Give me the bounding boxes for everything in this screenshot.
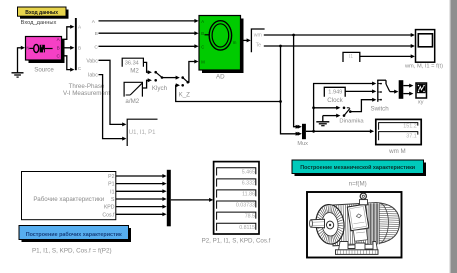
svg-text:K_Z: K_Z <box>179 92 191 99</box>
svg-text:Вход_данных: Вход_данных <box>21 20 57 26</box>
svg-text:wm M: wm M <box>388 148 406 155</box>
svg-text:1.949: 1.949 <box>328 89 342 95</box>
svg-text:C: C <box>201 44 204 49</box>
svg-text:xy: xy <box>418 100 424 106</box>
svg-text:36.34: 36.34 <box>125 60 139 66</box>
svg-text:U1, I1, P1: U1, I1, P1 <box>129 130 156 136</box>
svg-text:11.86: 11.86 <box>242 192 255 198</box>
svg-text:Cos.f: Cos.f <box>102 212 115 218</box>
svg-text:Вход данных: Вход данных <box>25 10 58 16</box>
svg-text:5.465: 5.465 <box>242 169 255 175</box>
svg-text:Te: Te <box>256 43 262 49</box>
svg-text:P2, P1, I1, S, KPD, Cos.f: P2, P1, I1, S, KPD, Cos.f <box>202 238 271 245</box>
svg-text:37.1: 37.1 <box>406 134 417 140</box>
svg-text:n=f(M): n=f(M) <box>349 181 367 188</box>
svg-text:B: B <box>78 46 81 51</box>
svg-text:Построение рабочих характерист: Построение рабочих характеристик <box>26 231 122 238</box>
svg-text:Iabc: Iabc <box>88 73 98 79</box>
svg-text:0.8115: 0.8115 <box>239 225 255 231</box>
svg-text:m: m <box>233 40 237 45</box>
svg-text:A: A <box>201 19 204 24</box>
svg-text:C: C <box>94 45 98 51</box>
svg-text:Clock: Clock <box>327 97 343 104</box>
svg-text:M: M <box>201 59 205 64</box>
svg-text:a/M2: a/M2 <box>125 98 139 105</box>
svg-text:Vabc: Vabc <box>86 58 98 64</box>
svg-text:B: B <box>95 31 98 37</box>
svg-text:N: N <box>26 46 29 51</box>
svg-text:0.03733: 0.03733 <box>236 203 255 209</box>
svg-text:AD: AD <box>216 73 225 80</box>
svg-text:Source: Source <box>34 66 54 73</box>
svg-text:I1: I1 <box>349 54 353 60</box>
svg-text:S: S <box>111 197 115 203</box>
svg-text:P2: P2 <box>108 174 114 180</box>
svg-text:Dinamika: Dinamika <box>339 119 364 125</box>
svg-text:Klych: Klych <box>152 85 168 92</box>
svg-text:wm: wm <box>254 33 262 39</box>
svg-text:KPD: KPD <box>104 205 115 211</box>
svg-text:P1, I1, S, KPD, Cos.f = f(P2): P1, I1, S, KPD, Cos.f = f(P2) <box>32 247 112 254</box>
svg-text:Three-Phase: Three-Phase <box>69 83 105 90</box>
svg-text:78.5: 78.5 <box>245 214 255 220</box>
svg-text:Построение механической характ: Построение механической характеристики <box>300 164 415 171</box>
svg-text:wm, M, I1 = f(t): wm, M, I1 = f(t) <box>404 64 443 70</box>
svg-text:151.2: 151.2 <box>403 124 417 130</box>
svg-text:M2: M2 <box>130 68 139 75</box>
svg-text:Switch: Switch <box>370 105 389 112</box>
svg-text:Рабочие характеристики: Рабочие характеристики <box>33 196 104 203</box>
svg-text:I1: I1 <box>110 189 114 195</box>
svg-text:B: B <box>201 31 204 36</box>
svg-text:6.332: 6.332 <box>242 180 255 186</box>
svg-text:P1: P1 <box>108 182 114 188</box>
svg-text:B: B <box>57 46 60 51</box>
svg-text:Mux: Mux <box>297 141 308 147</box>
